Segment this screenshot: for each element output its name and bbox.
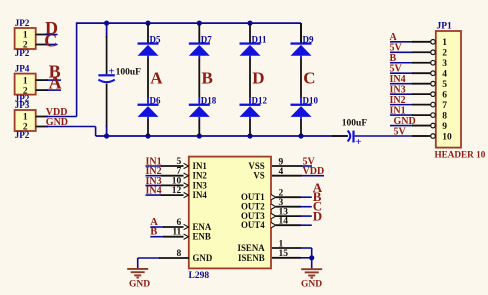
L298 pin 12 (IN4) <box>146 194 163 196</box>
svg-text:1: 1 <box>279 239 284 249</box>
svg-text:9: 9 <box>442 122 447 132</box>
L298 pin 4 (VS) <box>272 175 302 177</box>
JP1 pin 10 (5V) <box>412 135 431 137</box>
JP1 pin 1 (A) <box>390 41 413 43</box>
svg-text:5V: 5V <box>390 43 403 54</box>
diode D9 <box>300 23 302 43</box>
svg-text:JP2: JP2 <box>15 130 30 140</box>
svg-text:6: 6 <box>442 90 447 100</box>
capacitor 100uF left <box>106 23 108 38</box>
ground symbol left <box>137 258 139 268</box>
wire net B <box>46 79 61 81</box>
wire ISEN junction <box>311 248 313 268</box>
svg-text:1: 1 <box>23 76 28 86</box>
svg-text:ISENA: ISENA <box>238 243 266 253</box>
svg-text:B: B <box>390 53 397 64</box>
top supply rail <box>77 22 301 24</box>
svg-text:A: A <box>150 69 163 88</box>
L298 pin 13 (OUT3) <box>276 215 301 217</box>
svg-text:IN4: IN4 <box>146 186 162 197</box>
D5 anode stub <box>147 56 149 59</box>
svg-text:+: + <box>355 136 361 148</box>
JP1 pin 6 (IN3) <box>390 93 413 95</box>
IC L298 body <box>189 157 271 269</box>
svg-text:9: 9 <box>279 157 284 167</box>
D10 anode stub <box>300 117 302 120</box>
L298 pin 14 (OUT4) <box>276 224 301 226</box>
svg-text:A: A <box>390 32 398 43</box>
svg-text:VDD: VDD <box>303 166 325 177</box>
diode D7 <box>198 23 200 43</box>
L298 pin 9 (VSS) <box>272 165 302 167</box>
svg-text:D: D <box>252 69 264 88</box>
svg-text:IN2: IN2 <box>193 171 208 181</box>
JP3 pin2 stub <box>36 126 48 128</box>
JP1 pin 8 (IN1) <box>390 114 413 116</box>
L298 pin 15 (ISENB) <box>272 257 301 259</box>
svg-text:6: 6 <box>177 218 182 228</box>
svg-text:VS: VS <box>253 171 264 181</box>
svg-text:3: 3 <box>442 59 447 69</box>
svg-text:4: 4 <box>442 70 447 80</box>
JP1 pin 2 (5V) <box>390 51 413 53</box>
svg-text:15: 15 <box>279 249 289 259</box>
svg-text:D5: D5 <box>150 35 161 45</box>
svg-text:IN3: IN3 <box>193 180 208 190</box>
svg-text:11: 11 <box>172 228 181 238</box>
svg-text:GND: GND <box>129 280 150 290</box>
svg-text:100uF: 100uF <box>116 68 142 78</box>
svg-text:2: 2 <box>442 49 447 59</box>
svg-text:8: 8 <box>177 249 182 259</box>
ground symbol right <box>301 268 322 270</box>
svg-text:D12: D12 <box>252 96 268 106</box>
svg-text:ISENB: ISENB <box>238 253 265 263</box>
D12 anode wire <box>249 120 251 137</box>
D18 anode wire <box>198 120 200 137</box>
svg-text:100uF: 100uF <box>342 119 368 129</box>
L298 pin 2 (OUT1) <box>276 196 301 198</box>
wire node B column <box>198 59 200 98</box>
svg-text:D18: D18 <box>201 96 217 106</box>
wire top rail corner down <box>300 23 302 43</box>
svg-text:1: 1 <box>442 38 447 48</box>
connector JP3 body <box>15 110 36 131</box>
svg-text:JP1: JP1 <box>437 21 453 31</box>
D11 anode stub <box>249 56 251 59</box>
L298 pin 7 (IN2) <box>146 175 163 177</box>
svg-text:JP3: JP3 <box>15 100 30 110</box>
diode D6 <box>147 97 149 104</box>
D12 anode stub <box>249 117 251 120</box>
wire node D column <box>249 59 251 98</box>
L298 pin 10 (IN3) <box>146 184 163 186</box>
svg-text:ENB: ENB <box>193 232 211 242</box>
junction ISENA/ISENB <box>309 255 314 260</box>
wire GND vertical <box>95 127 97 137</box>
svg-text:JP4: JP4 <box>15 63 30 73</box>
wire cap to JP1 pin10 <box>355 135 429 137</box>
svg-text:2: 2 <box>279 189 284 199</box>
wire net D <box>46 34 58 36</box>
svg-text:HEADER 10: HEADER 10 <box>435 150 486 160</box>
connector JP2 body <box>15 28 36 49</box>
svg-text:14: 14 <box>279 217 289 227</box>
svg-text:D6: D6 <box>150 96 161 106</box>
svg-text:IN3: IN3 <box>390 84 406 95</box>
svg-text:A: A <box>49 72 62 92</box>
svg-text:4: 4 <box>279 167 284 177</box>
svg-text:IN4: IN4 <box>193 190 208 200</box>
wire net C <box>46 44 58 46</box>
JP4 pin1 stub <box>36 79 48 81</box>
junction bottom col A <box>145 133 150 138</box>
svg-text:IN1: IN1 <box>390 105 406 116</box>
JP1 pin 3 (B) <box>390 62 413 64</box>
svg-text:OUT1: OUT1 <box>241 192 265 202</box>
svg-text:D: D <box>313 208 322 223</box>
JP2 pin1 stub <box>36 34 48 36</box>
svg-text:ENA: ENA <box>193 222 212 232</box>
junction bottom col B <box>197 133 202 138</box>
JP4 pin2 stub <box>36 89 48 91</box>
svg-text:JP2: JP2 <box>15 18 30 28</box>
bottom rail <box>96 135 348 137</box>
svg-text:5V: 5V <box>390 64 403 75</box>
svg-text:GND: GND <box>301 280 322 290</box>
svg-text:D10: D10 <box>303 96 319 106</box>
D9 anode stub <box>300 56 302 59</box>
svg-text:C: C <box>303 69 315 88</box>
wire VDD vertical <box>76 22 78 116</box>
svg-text:B: B <box>202 69 213 88</box>
JP1 pin 7 (IN2) <box>390 104 413 106</box>
svg-text:1: 1 <box>23 31 28 41</box>
junction top col A <box>145 21 150 26</box>
svg-text:C: C <box>44 31 57 51</box>
svg-text:D7: D7 <box>201 35 212 45</box>
svg-text:GND: GND <box>394 116 416 127</box>
svg-text:7: 7 <box>442 101 447 111</box>
svg-text:OUT4: OUT4 <box>241 220 265 230</box>
svg-text:5V: 5V <box>394 126 407 137</box>
JP1 pin 4 (5V) <box>390 72 413 74</box>
L298 pin 5 (IN1) <box>146 165 163 167</box>
svg-text:D9: D9 <box>303 35 314 45</box>
wire net A <box>46 89 61 91</box>
D10 anode wire <box>300 120 302 137</box>
svg-text:+: + <box>108 65 114 77</box>
connector JP1 body <box>436 31 461 148</box>
svg-text:5: 5 <box>177 157 182 167</box>
svg-text:GND: GND <box>193 253 213 263</box>
JP2 pin2 stub <box>36 44 48 46</box>
D6 anode stub <box>147 117 149 120</box>
D6 anode wire <box>147 120 149 137</box>
D18 anode stub <box>198 117 200 120</box>
svg-text:L298: L298 <box>189 271 210 281</box>
L298 pin 3 (OUT2) <box>276 206 301 208</box>
svg-text:8: 8 <box>442 111 447 121</box>
L298 pin 6 (ENA) <box>150 226 164 228</box>
JP1 pin 9 (GND) <box>390 125 413 127</box>
L298 pin 8 (GND) <box>138 257 160 259</box>
svg-text:JP2: JP2 <box>15 48 30 58</box>
JP1 pin 5 (IN4) <box>390 83 413 85</box>
junction bottom col C <box>298 133 303 138</box>
svg-text:1: 1 <box>23 113 28 123</box>
svg-text:7: 7 <box>177 167 182 177</box>
svg-text:VSS: VSS <box>248 161 264 171</box>
junction bottom col D <box>247 133 252 138</box>
connector JP4 body <box>15 74 36 95</box>
svg-text:IN2: IN2 <box>390 95 406 106</box>
wire GND horizontal <box>46 126 96 128</box>
svg-text:IN4: IN4 <box>390 74 406 85</box>
svg-text:12: 12 <box>172 186 182 196</box>
svg-text:B: B <box>150 227 157 238</box>
wire VDD <box>46 116 77 118</box>
D7 anode stub <box>198 56 200 59</box>
svg-text:GND: GND <box>46 117 68 128</box>
svg-text:10: 10 <box>172 176 182 186</box>
diode D12 <box>249 97 251 104</box>
L298 pin 1 (ISENA) <box>272 247 301 249</box>
junction top col D <box>247 21 252 26</box>
svg-text:D11: D11 <box>252 35 268 45</box>
diode D18 <box>198 97 200 104</box>
svg-text:5: 5 <box>442 80 447 90</box>
JP3 pin1 stub <box>36 116 48 118</box>
svg-text:10: 10 <box>442 132 452 142</box>
capacitor 100uF right <box>332 135 347 137</box>
junction top cap <box>104 21 109 26</box>
svg-text:IN1: IN1 <box>193 161 207 171</box>
diode D10 <box>300 97 302 104</box>
diode D11 <box>249 23 251 43</box>
junction top col B <box>197 21 202 26</box>
diode D5 <box>147 23 149 43</box>
junction bottom cap <box>104 133 109 138</box>
wire node A column <box>147 59 149 98</box>
wire node C column <box>300 59 302 98</box>
L298 pin 11 (ENB) <box>150 236 164 238</box>
